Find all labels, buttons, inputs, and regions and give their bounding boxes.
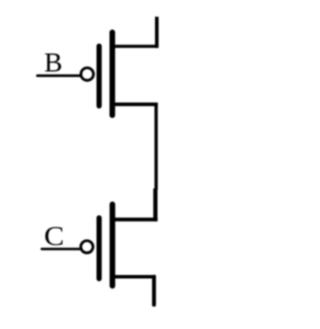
transistor Q2 channel bar xyxy=(110,204,116,285)
wire (Q1 source to Q2 drain, vertical upper segment) xyxy=(154,104,157,189)
wire (input lead from B to Q1 gate bubble) xyxy=(37,74,80,77)
wire (Q2 drain stub, horizontal) xyxy=(111,218,158,222)
node B (gate input net label) xyxy=(44,47,62,78)
wire (input lead from C to Q2 gate bubble) xyxy=(42,248,80,250)
svg-text:B: B xyxy=(44,47,62,78)
transistor Q1 (PMOS) gate bubble xyxy=(81,68,94,81)
node C (gate input net label) xyxy=(44,221,64,252)
wire (Q1 source stub, horizontal) xyxy=(111,103,158,107)
transistor Q1 gate bar xyxy=(96,46,101,106)
transistor Q1 channel bar xyxy=(110,32,116,115)
wire (Q1 drain stub, horizontal) xyxy=(111,45,159,48)
wire (output lead going down, vertical) xyxy=(152,277,156,305)
wire (Q2 source stub, horizontal) xyxy=(111,275,156,279)
transistor Q2 (PMOS) gate bubble xyxy=(81,241,93,253)
transistor Q2 gate bar xyxy=(96,218,101,279)
wire (Q1 source to Q2 drain, vertical lower segment) xyxy=(153,189,157,222)
wire (top supply lead, vertical) xyxy=(155,17,159,48)
svg-text:C: C xyxy=(44,221,64,252)
